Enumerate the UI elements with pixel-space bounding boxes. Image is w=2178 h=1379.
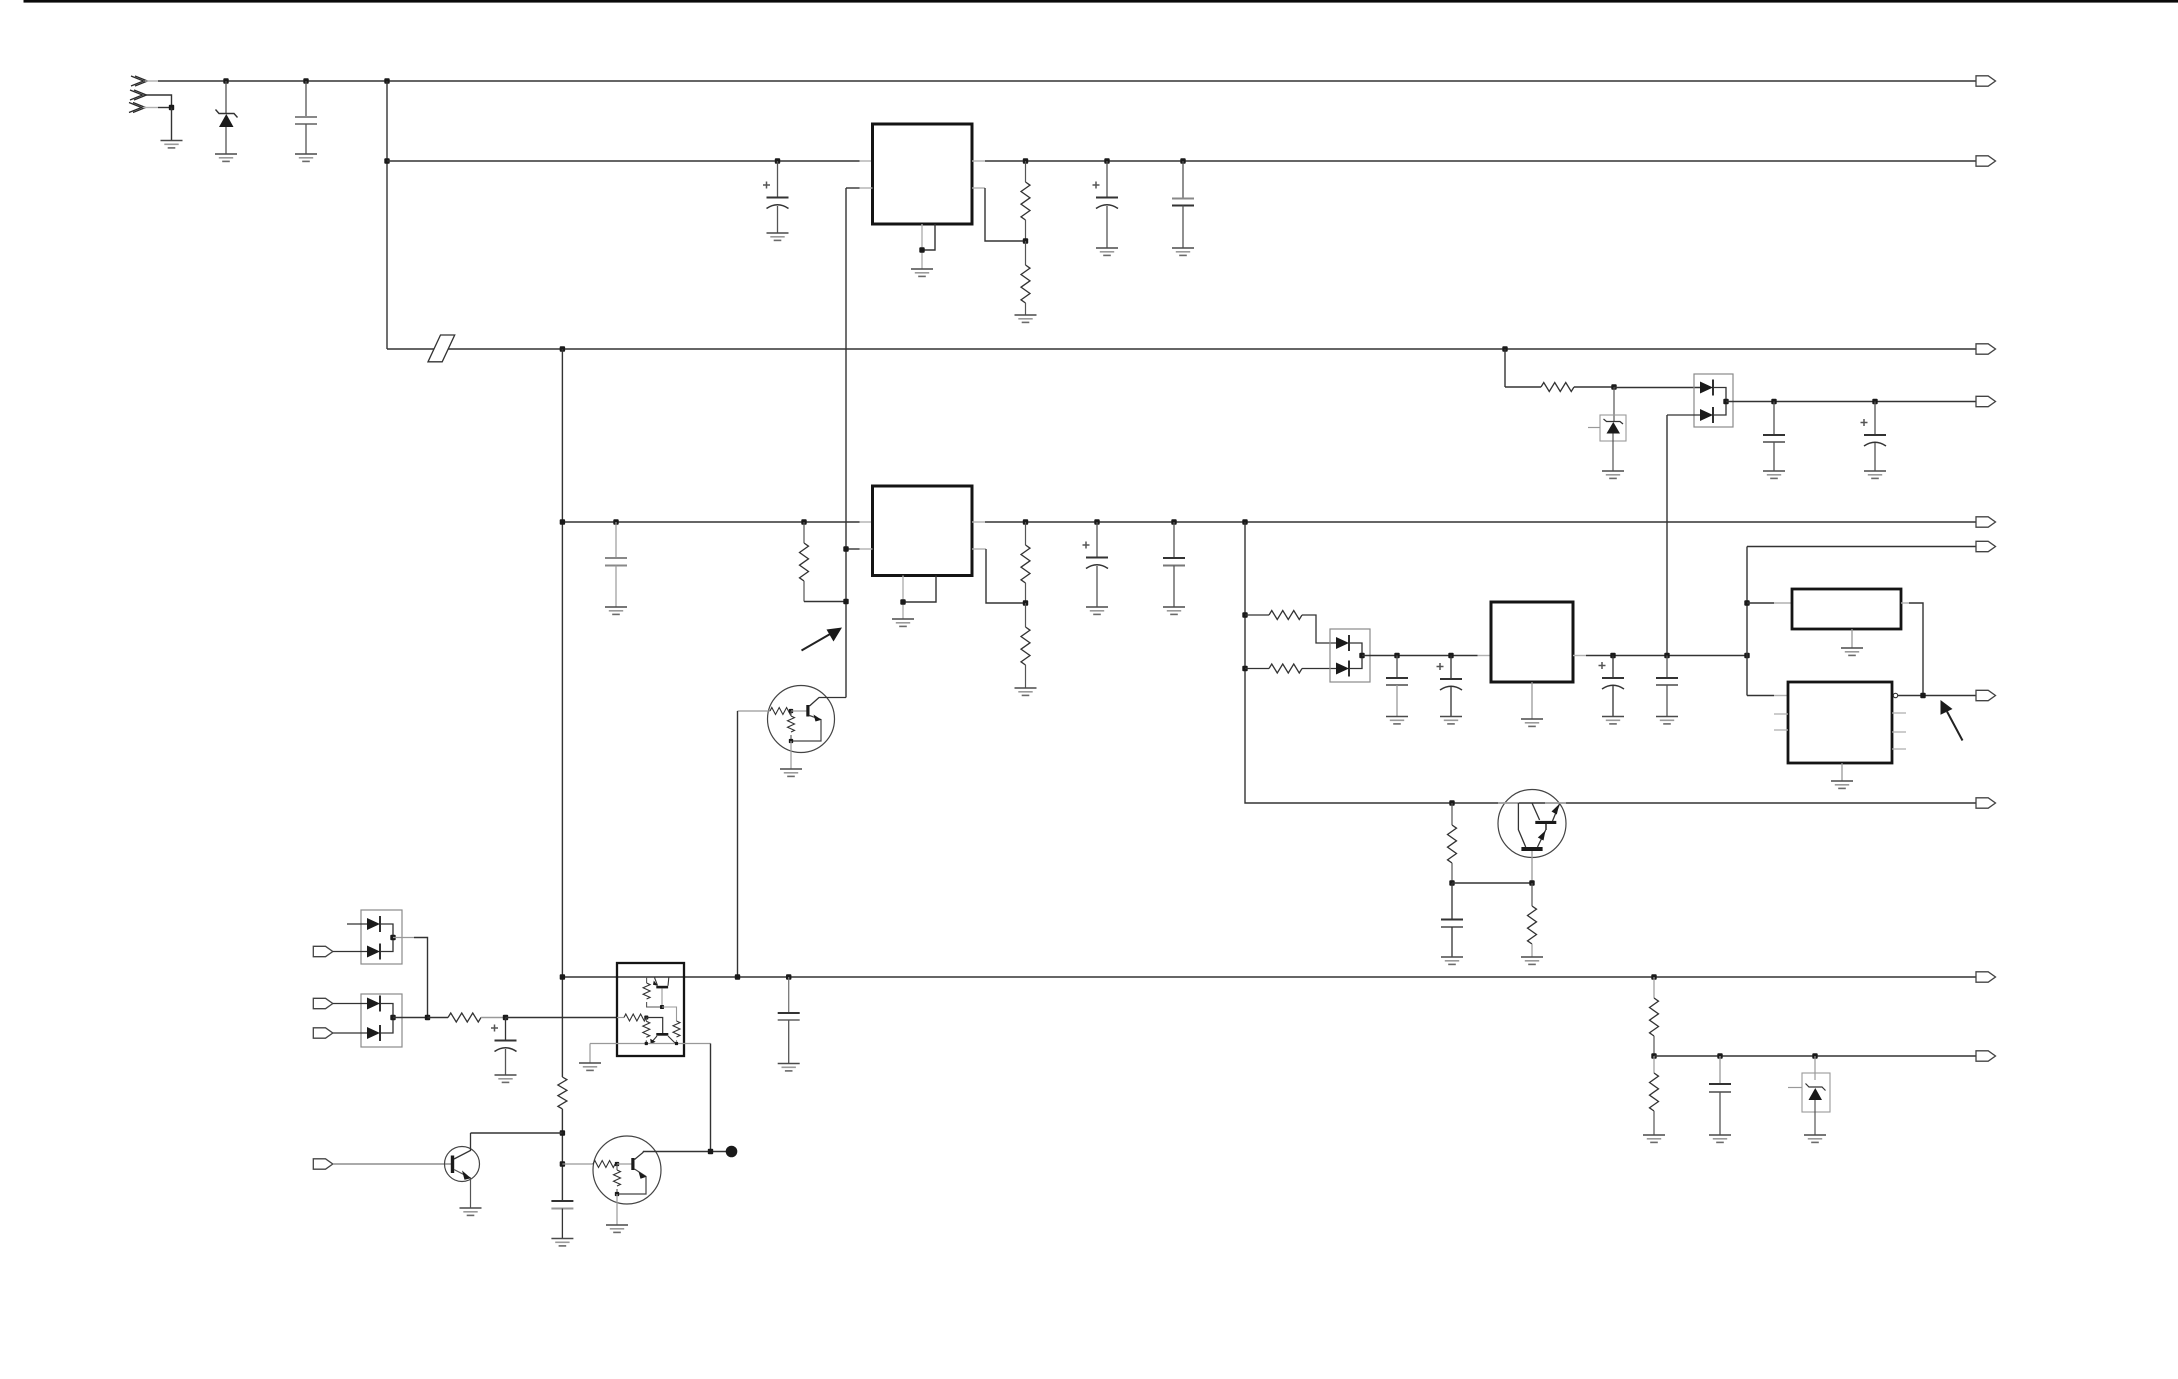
- wire IC2 pin2 left: [846, 548, 873, 550]
- input connector D14: [313, 1028, 333, 1038]
- ground under C2: [767, 233, 789, 240]
- U6 bottom rail: [590, 1043, 711, 1045]
- node rail left leg: [645, 1042, 648, 1045]
- connector J1 pin 2: [130, 90, 147, 100]
- annotation arrow 1: [802, 628, 843, 651]
- node bus3/res tap right: [1502, 346, 1507, 351]
- IC U2 regulator: [873, 486, 973, 576]
- node C12 tap: [1610, 653, 1615, 658]
- node pin2/pin3 junction: [169, 105, 174, 110]
- ground under C13: [1656, 717, 1678, 724]
- IC U3 regulator: [1491, 602, 1573, 682]
- capacitor C15: [1709, 1056, 1731, 1135]
- node R1 top: [1023, 158, 1028, 163]
- IC1 bottom pins to ground: [922, 224, 935, 269]
- wire y=803 to output: [1452, 802, 1976, 804]
- resistor R8: [1269, 664, 1302, 673]
- wire bus2 y=161 left: [387, 160, 860, 162]
- wire vertical branch x=387: [386, 81, 388, 349]
- node R5 top: [1023, 519, 1028, 524]
- wire conn to D12: [333, 951, 367, 953]
- ground under Q3: [780, 769, 802, 776]
- node R8 top: [1242, 666, 1247, 671]
- node y1151/x710: [708, 1149, 713, 1154]
- ground under J1: [161, 141, 183, 148]
- input connector D12: [313, 946, 333, 956]
- wire IC1 pin stub left1: [860, 160, 873, 162]
- output connector bus2: [1976, 156, 1996, 166]
- capacitor C9: [1163, 522, 1185, 607]
- node R5/R6 junction: [1023, 600, 1028, 605]
- wire vertical x=1747: [1746, 547, 1748, 696]
- wire pkg2 output: [393, 1017, 428, 1019]
- capacitor C16 electrolytic: [491, 1018, 517, 1076]
- module2 side pins: [1774, 713, 1906, 749]
- node bus2 start: [384, 158, 389, 163]
- node IC2 gnd pin: [900, 599, 905, 604]
- ground under U5: [1831, 781, 1853, 788]
- ground under C5: [1763, 471, 1785, 478]
- node R4 top: [801, 519, 806, 524]
- zener D9 boxed: [1588, 387, 1626, 471]
- ground under Q4: [606, 1225, 628, 1232]
- wire bus4 y=522 left: [562, 521, 859, 523]
- ground under C11: [1440, 717, 1462, 724]
- capacitor C2 electrolytic: [763, 161, 789, 233]
- wire module2 output: [1898, 695, 1976, 697]
- wire bus5 y=655.5: [1362, 655, 1478, 657]
- ground under C3: [1096, 248, 1118, 255]
- wire R7 leads: [1245, 615, 1336, 643]
- node C4 tap: [1180, 158, 1185, 163]
- transistor Q3 digital: [738, 686, 847, 770]
- transistor pack U6: [617, 963, 684, 1056]
- title block top bar: [24, 0, 2178, 3]
- wire bus VIN y=81: [158, 80, 1976, 82]
- ground under Q2: [460, 1208, 482, 1215]
- node D11/D12 output: [390, 935, 395, 940]
- wire D6 anode from vertical: [1667, 414, 1700, 416]
- annotation arrow 2: [1941, 700, 1963, 741]
- ground under C7: [605, 607, 627, 614]
- zener diode D1: [216, 81, 238, 154]
- wire IC1 pin2 left: [846, 187, 873, 189]
- capacitor C7: [605, 522, 627, 607]
- ground under C1: [295, 154, 317, 161]
- resistor R4: [800, 522, 809, 602]
- resistor R9: [1448, 803, 1457, 883]
- output connector y=546: [1976, 541, 1996, 551]
- U6 lower transistor: [646, 1018, 675, 1045]
- node D7/D8 output: [1359, 653, 1364, 658]
- ground under R12: [1643, 1135, 1665, 1142]
- IC U1 regulator: [873, 124, 973, 224]
- capacitor C13: [1656, 656, 1678, 717]
- node divider mid: [1651, 1053, 1656, 1058]
- capacitor C4: [1172, 161, 1194, 248]
- output connector VIN: [1976, 76, 1996, 86]
- wire bus3 y=349: [387, 348, 1976, 350]
- wire bus5 right: [1586, 655, 1747, 657]
- module U4: [1792, 589, 1901, 629]
- node D13/D14 output: [390, 1015, 395, 1020]
- ground under C18: [778, 1064, 800, 1071]
- wire node to Qpack input: [506, 1017, 618, 1019]
- ground under U3: [1521, 719, 1543, 726]
- capacitor C12 electrolytic: [1599, 656, 1625, 717]
- node C15 tap: [1717, 1053, 1722, 1058]
- wire drop x=1505: [1504, 349, 1506, 387]
- node C11 tap: [1448, 653, 1453, 658]
- capacitor C14: [1441, 883, 1463, 957]
- resistor R7: [1269, 611, 1302, 620]
- node x562 collector tap: [560, 1130, 565, 1135]
- wire y=401.5 to output: [1726, 401, 1976, 403]
- output connector bus3: [1976, 344, 1996, 354]
- module U5: [1788, 682, 1892, 763]
- wire vertical x=562: [561, 349, 563, 1201]
- wire y=883: [1452, 882, 1532, 884]
- node D10 tap: [1812, 1053, 1817, 1058]
- node pkg join: [425, 1015, 430, 1020]
- ground under C17: [551, 1239, 573, 1246]
- wire bus4 y=522 right: [985, 521, 1976, 523]
- wire conn to D14: [333, 1032, 367, 1034]
- wire rail to ground: [589, 1044, 591, 1064]
- node C18 tap: [786, 974, 791, 979]
- node module1 tap: [1744, 600, 1749, 605]
- U6 input resistor: [617, 1014, 646, 1021]
- node x562 Q4 base tap: [560, 1161, 565, 1166]
- connector J1 pin 1: [131, 76, 148, 86]
- wire to R13: [428, 1017, 449, 1019]
- wire IC2 right pin1 stub: [972, 521, 985, 523]
- ground under U1: [911, 269, 933, 276]
- wire node to ground: [171, 108, 173, 141]
- wire R13 to node: [481, 1017, 506, 1019]
- node output/x1923: [1920, 693, 1925, 698]
- module2 output circle: [1893, 693, 1897, 697]
- U6 internal bias network: [643, 977, 662, 1007]
- wire pin3 stub: [143, 107, 158, 109]
- ground under C4: [1172, 248, 1194, 255]
- transistor Q5 dual: [1498, 790, 1566, 884]
- zener D10 boxed: [1788, 1056, 1830, 1135]
- wire IC1 right pin1 stub: [972, 160, 985, 162]
- wire module1 left lead: [1747, 602, 1792, 604]
- wire y=1133: [471, 1132, 563, 1134]
- wire Q4 collector y=1151.5: [643, 1151, 726, 1153]
- wire y=546.5 to output: [1747, 546, 1976, 548]
- node bus4 branch x=1245: [1242, 519, 1247, 524]
- node IC1 gnd pin: [919, 247, 924, 252]
- wire bus y=977: [562, 976, 1976, 978]
- wire node to D5 anode: [1614, 387, 1700, 389]
- node C2 tap: [775, 158, 780, 163]
- wire module1 right lead: [1901, 603, 1923, 696]
- transistor Q2: [445, 1133, 480, 1208]
- output connector bus4: [1976, 517, 1996, 527]
- output connector y=803: [1976, 798, 1996, 808]
- node U6 base: [644, 1015, 648, 1019]
- ground under D10: [1804, 1135, 1826, 1142]
- output connector y=401: [1976, 396, 1996, 406]
- node y803 resistor tap: [1449, 800, 1454, 805]
- node diode pair output: [1723, 399, 1728, 404]
- output connector y=977: [1976, 972, 1996, 982]
- resistor R5: [1021, 522, 1030, 603]
- resistor R6: [1021, 603, 1030, 688]
- wire Q3 base feed vertical x=737: [737, 711, 739, 977]
- wire R4 bottom to x846: [804, 601, 846, 603]
- capacitor C8 electrolytic: [1083, 522, 1109, 607]
- capacitor C18: [778, 977, 800, 1064]
- transistor Q4 digital: [593, 1136, 661, 1225]
- capacitor C5: [1763, 402, 1785, 472]
- wire R8 leads: [1245, 668, 1336, 670]
- ground under U2: [892, 619, 914, 626]
- input connector D13: [313, 998, 333, 1008]
- ground under D9: [1602, 471, 1624, 478]
- dual diode package D13/D14: [361, 994, 402, 1047]
- wire bus2 y=161 right: [985, 160, 1976, 162]
- capacitor C1: [295, 81, 317, 154]
- wire IC3 right stub: [1573, 655, 1586, 657]
- wire U1 feedback vertical x=846: [845, 188, 847, 698]
- resistor R2: [1021, 241, 1030, 315]
- ground under C10: [1386, 717, 1408, 724]
- ground under C6: [1864, 471, 1886, 478]
- module1 ground pin: [1851, 629, 1853, 648]
- node cap C1 tap: [303, 78, 308, 83]
- resistor R10: [1528, 883, 1537, 957]
- resistor R3: [1541, 383, 1574, 392]
- node R7 top: [1242, 612, 1247, 617]
- dual diode package D11/D12: [347, 910, 402, 964]
- node Q5 emitter bottom: [1529, 880, 1534, 885]
- node bus5/x1747: [1744, 653, 1749, 658]
- wire IC2 left pin1 stub: [860, 521, 873, 523]
- U6 upper transistor: [653, 978, 669, 1008]
- node bus977/x562: [560, 974, 565, 979]
- ground under R10: [1521, 957, 1543, 964]
- wire to R3: [1505, 386, 1541, 388]
- wire pkg1 output: [393, 938, 428, 1018]
- ground under C16: [495, 1075, 517, 1082]
- test point terminal: [726, 1146, 738, 1158]
- wire IC1 right pin2 jog: [972, 188, 1026, 241]
- module2 ground pin: [1841, 763, 1843, 781]
- ground under C9: [1163, 607, 1185, 614]
- node C9 tap: [1171, 519, 1176, 524]
- capacitor C10: [1386, 656, 1408, 717]
- resistor R14 on x=562: [558, 1077, 567, 1109]
- output connector y=695: [1976, 690, 1996, 700]
- node zener branch: [1611, 384, 1616, 389]
- node bus977/x737: [735, 974, 740, 979]
- ground under C12: [1602, 717, 1624, 724]
- node U6 mid: [660, 1005, 664, 1009]
- node C7 tap: [613, 519, 618, 524]
- capacitor C6 electrolytic: [1861, 402, 1887, 472]
- input connector Q2 base: [313, 1159, 333, 1169]
- capacitor C3 electrolytic: [1093, 161, 1119, 248]
- ground under U6: [579, 1063, 601, 1070]
- wire IC2 right pin2 jog: [972, 549, 1026, 603]
- wire module2 left lead: [1747, 695, 1788, 697]
- node zener tap: [223, 78, 228, 83]
- IC3 ground pin: [1531, 682, 1533, 719]
- ground under C8: [1086, 607, 1108, 614]
- node C3 tap: [1104, 158, 1109, 163]
- resistor R1: [1021, 161, 1030, 241]
- dual diode package D7/D8: [1330, 629, 1370, 682]
- node rail right leg: [675, 1042, 678, 1045]
- wire pin2 to node: [144, 95, 172, 108]
- wire y=1056 to output: [1654, 1055, 1976, 1057]
- ground under D1: [215, 154, 237, 161]
- wire R3 to node: [1574, 386, 1614, 388]
- node C16 tap: [503, 1015, 508, 1020]
- node bus3/vert562: [560, 346, 565, 351]
- resistor R11: [1650, 977, 1659, 1056]
- capacitor C11 electrolytic: [1437, 656, 1463, 717]
- node y977 divider tap: [1651, 974, 1656, 979]
- wire to Q4: [562, 1163, 593, 1165]
- wire conn to D13: [333, 1003, 367, 1005]
- node C6 tap: [1872, 399, 1877, 404]
- node C10 tap: [1394, 653, 1399, 658]
- node C13 tap: [1664, 653, 1669, 658]
- fuse F1: [428, 335, 455, 362]
- ground under C14: [1441, 957, 1463, 964]
- node R1/R2 junction: [1023, 238, 1028, 243]
- node R9 bottom: [1449, 880, 1454, 885]
- wire rail right to y1151: [710, 1044, 712, 1152]
- node C8 tap: [1094, 519, 1099, 524]
- wire pin3 to node: [158, 107, 172, 109]
- wire pin1 stub: [145, 80, 158, 82]
- node C5 tap: [1771, 399, 1776, 404]
- dual diode package D5/D6: [1694, 374, 1733, 427]
- ground under C15: [1709, 1135, 1731, 1142]
- node bus4/vert562: [560, 519, 565, 524]
- IC2 bottom pins to ground: [903, 576, 936, 620]
- ground under U4: [1841, 648, 1863, 655]
- wire vertical x=1245 and corner to y=803: [1245, 522, 1452, 803]
- wire conn to Q2 base: [333, 1163, 451, 1165]
- node main branch: [384, 78, 389, 83]
- node x846 fb junction: [843, 599, 848, 604]
- capacitor C17: [551, 1201, 573, 1239]
- output connector y=1056: [1976, 1051, 1996, 1061]
- resistor R13: [448, 1013, 481, 1022]
- resistor R12: [1650, 1056, 1659, 1135]
- U6 lower resistor leg: [643, 1018, 650, 1044]
- wire vertical x=1667: [1666, 415, 1668, 656]
- U6 right resistor leg: [662, 1007, 680, 1044]
- wire IC3 left stub: [1478, 655, 1492, 657]
- ground under R6: [1015, 688, 1037, 695]
- connector J1 pin 3: [129, 103, 146, 113]
- node x846/pin2: [843, 546, 848, 551]
- ground under R2: [1015, 315, 1037, 322]
